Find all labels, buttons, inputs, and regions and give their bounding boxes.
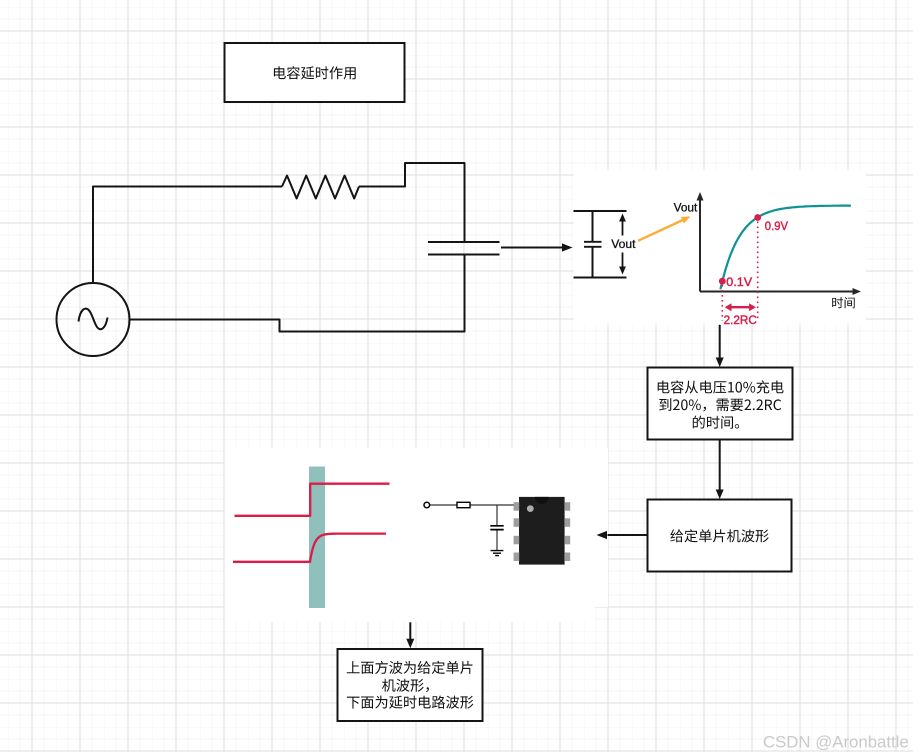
- svg-text:CSDN @Aronbattle: CSDN @Aronbattle: [763, 733, 909, 752]
- svg-text:2.2RC: 2.2RC: [724, 313, 757, 327]
- svg-text:0.1V: 0.1V: [726, 275, 753, 289]
- svg-text:Vout: Vout: [674, 200, 698, 214]
- svg-text:Vout: Vout: [611, 237, 636, 251]
- svg-text:0.9V: 0.9V: [765, 219, 789, 233]
